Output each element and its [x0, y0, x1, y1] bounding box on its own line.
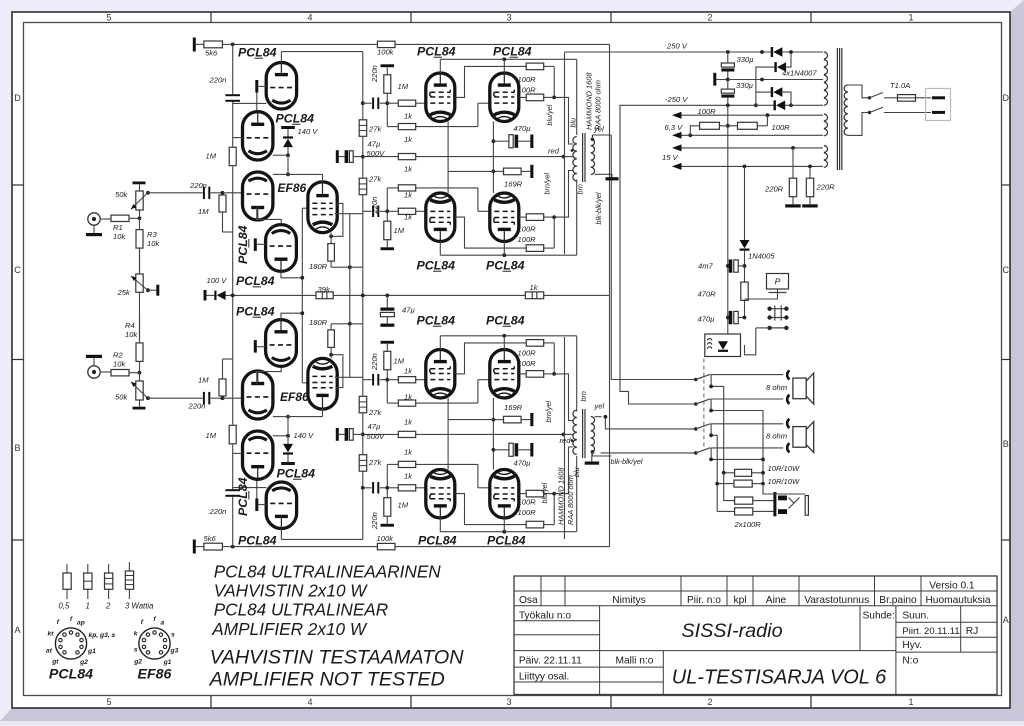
svg-text:Liittyy osal.: Liittyy osal.	[519, 672, 569, 683]
svg-text:kt: kt	[48, 631, 55, 638]
mechanical link dashed	[703, 359, 705, 451]
bottom amplifier channel (mirror)	[86, 296, 611, 554]
svg-text:T1.0A: T1.0A	[890, 81, 910, 90]
svg-text:47µ: 47µ	[368, 422, 381, 431]
svg-text:PCL84: PCL84	[418, 534, 457, 548]
svg-text:5: 5	[106, 697, 111, 707]
resistor 100k rail	[377, 543, 395, 549]
330u cap 2	[721, 89, 734, 93]
input jack	[88, 213, 100, 225]
svg-text:brn/yel: brn/yel	[544, 401, 553, 423]
screen wire col1	[455, 217, 526, 248]
resistor 1k grid stopper row1b	[398, 400, 415, 406]
triode PCL84 A	[266, 482, 296, 529]
cathode cap 470u	[493, 140, 509, 142]
svg-text:yel: yel	[594, 402, 605, 411]
svg-text:100R: 100R	[518, 235, 537, 244]
wire C anode to D cathode	[257, 207, 281, 224]
svg-text:1M: 1M	[198, 375, 209, 384]
svg-text:blu/yel: blu/yel	[540, 482, 549, 503]
svg-text:PCL84: PCL84	[236, 477, 250, 516]
svg-text:red: red	[548, 147, 560, 156]
svg-text:gt: gt	[51, 659, 59, 666]
svg-text:s: s	[134, 647, 138, 654]
resistor 180R cathode EF86	[328, 330, 335, 348]
resistor 27k row1	[359, 178, 367, 195]
svg-text:100k: 100k	[377, 48, 395, 57]
resistor 27k row1	[359, 120, 367, 137]
OPT primary coil	[573, 136, 577, 143]
OPT primary top lead	[576, 456, 578, 532]
svg-text:PCL84: PCL84	[236, 274, 275, 288]
svg-text:VAHVISTIN 2x10 W: VAHVISTIN 2x10 W	[214, 581, 369, 601]
legend resistor 3W	[128, 562, 130, 571]
resistor 10R/10W b	[734, 480, 752, 487]
svg-text:1k: 1k	[404, 213, 413, 222]
svg-text:100R: 100R	[518, 508, 537, 517]
node spine x=233	[232, 44, 234, 94]
legend resistor 2W	[108, 564, 110, 573]
margin ticks	[210, 12, 212, 23]
svg-text:blu/yel: blu/yel	[545, 104, 554, 125]
output tube PCL84 row1 col1	[426, 193, 455, 242]
wire B anode to A grid	[256, 93, 258, 112]
svg-text:330µ: 330µ	[736, 81, 754, 90]
140V zener chain	[281, 126, 295, 129]
svg-text:Varastotunnus: Varastotunnus	[804, 595, 869, 606]
cathode cross wire	[448, 419, 493, 421]
wire B grid to spine	[233, 452, 243, 454]
svg-text:1: 1	[908, 13, 913, 23]
svg-text:brn: brn	[576, 184, 585, 194]
red CT line with 1k	[363, 156, 399, 158]
svg-text:25k: 25k	[117, 288, 131, 297]
resistor 10R/10W a	[735, 469, 752, 476]
svg-text:1k: 1k	[404, 448, 413, 457]
psu	[565, 47, 951, 334]
resistor 2x100R b	[735, 508, 753, 515]
svg-text:180R: 180R	[309, 318, 328, 327]
OPT primary top lead	[576, 180, 578, 256]
capacitor 220n input coupling	[203, 187, 205, 200]
svg-text:SISSI-radio: SISSI-radio	[681, 620, 782, 642]
svg-text:PCL84: PCL84	[417, 314, 456, 328]
power switch contacts	[770, 308, 787, 310]
svg-text:PCL84: PCL84	[277, 467, 316, 481]
PT primary	[844, 85, 848, 92]
svg-text:RJ: RJ	[966, 626, 978, 637]
screen wire col1	[455, 494, 526, 525]
svg-text:PCL84: PCL84	[49, 667, 93, 683]
output tube PCL84 row1 col2	[490, 350, 519, 399]
resistor 100R screen col1	[526, 63, 544, 70]
svg-text:500V: 500V	[367, 432, 386, 441]
svg-text:Nimitys: Nimitys	[612, 595, 645, 606]
speaker wire w1	[611, 135, 696, 380]
svg-text:100R: 100R	[518, 86, 537, 95]
OPT center tap	[564, 433, 574, 435]
OPT2 ground	[592, 453, 595, 462]
triode PCL84 C (flipped)	[243, 371, 273, 420]
grid terminal bar D	[254, 340, 257, 353]
svg-text:1k: 1k	[404, 112, 413, 121]
terminal bar CT	[713, 73, 716, 86]
svg-text:4: 4	[307, 13, 312, 23]
svg-text:B: B	[14, 443, 20, 453]
svg-text:RAA 8000 ohm: RAA 8000 ohm	[594, 80, 603, 130]
output tube PCL84 row1 col2	[490, 73, 519, 122]
resistor 1M grid row1	[384, 498, 391, 517]
resistor 39k	[316, 292, 333, 299]
svg-text:ap: ap	[77, 620, 85, 627]
wire EF86 g3 row	[335, 213, 363, 215]
screen wire col2	[519, 493, 526, 495]
svg-text:180R: 180R	[309, 262, 328, 271]
lamp P	[767, 274, 789, 290]
PT core	[836, 48, 838, 170]
svg-text:brn: brn	[579, 391, 588, 401]
ground at jack	[93, 225, 95, 233]
pentode EF86	[308, 182, 337, 233]
svg-text:blk-blk/yel: blk-blk/yel	[594, 192, 603, 224]
svg-text:Suhde:: Suhde:	[863, 611, 895, 622]
svg-text:140 V: 140 V	[298, 127, 319, 136]
svg-text:1k: 1k	[404, 418, 413, 427]
svg-text:0,5: 0,5	[59, 602, 71, 611]
elco 47u 500V	[336, 150, 339, 163]
svg-text:D: D	[14, 93, 21, 103]
OPT box	[564, 52, 566, 254]
grid terminal bar A	[255, 80, 258, 93]
cap 470u psu	[729, 311, 733, 324]
wire A cathode left	[233, 487, 267, 489]
diode 1N4005	[744, 166, 746, 240]
top amplifier channel	[86, 38, 611, 296]
svg-text:1k: 1k	[404, 191, 413, 200]
triode PCL84 B	[243, 112, 273, 160]
svg-text:Br.paino: Br.paino	[879, 595, 917, 606]
svg-text:27k: 27k	[368, 458, 382, 467]
anode line row1	[440, 335, 576, 337]
svg-text:10k: 10k	[147, 239, 160, 248]
PT 6.3V winding	[824, 114, 828, 121]
svg-text:g2: g2	[133, 659, 142, 666]
svg-text:PCL84: PCL84	[238, 534, 277, 548]
svg-text:P: P	[775, 277, 781, 287]
output tube PCL84 row1 col2	[490, 193, 519, 242]
svg-text:470R: 470R	[698, 290, 717, 299]
svg-text:Malli n:o: Malli n:o	[616, 656, 654, 667]
grid-leak terminal bar row1	[381, 247, 395, 250]
svg-text:4: 4	[307, 697, 312, 707]
svg-text:R2: R2	[113, 350, 123, 359]
svg-text:100R: 100R	[518, 349, 537, 358]
speaker wire w3	[605, 417, 695, 429]
OPT secondary coil	[591, 445, 595, 452]
OPT secondary coil	[591, 139, 595, 146]
svg-text:Piir. n:o: Piir. n:o	[687, 595, 721, 606]
svg-text:100R: 100R	[518, 225, 537, 234]
svg-text:-250 V: -250 V	[665, 95, 688, 104]
svg-text:220n: 220n	[370, 197, 379, 215]
svg-text:PCL84: PCL84	[493, 45, 532, 59]
heater row D	[672, 144, 682, 151]
resistor 1k grid stopper row1a	[398, 485, 415, 491]
resistor R1 10k	[111, 370, 129, 376]
svg-text:s: s	[171, 632, 175, 639]
100R pair joins	[544, 65, 546, 67]
svg-text:R3: R3	[147, 230, 157, 239]
OPT center tap	[564, 156, 574, 158]
resistor 1M spine	[229, 147, 236, 166]
screen wire col2	[519, 216, 526, 218]
screen wire col1	[455, 343, 526, 374]
OPT secondary top lead	[591, 450, 594, 453]
capacitor 220n input spine	[225, 495, 240, 497]
resistor 1M grid row1	[384, 75, 391, 94]
svg-text:470µ: 470µ	[514, 124, 532, 133]
resistor 1k bus	[525, 292, 543, 299]
svg-text:PCL84: PCL84	[417, 45, 456, 59]
screen wire col2	[519, 96, 526, 98]
wire grid col2	[477, 188, 479, 211]
resistor 2x100R a	[735, 497, 753, 504]
svg-text:R1: R1	[113, 223, 123, 232]
svg-text:2: 2	[707, 13, 712, 23]
svg-text:Aine: Aine	[766, 595, 787, 606]
speaker 2 8ohm	[787, 419, 789, 428]
OPT core	[582, 409, 584, 458]
resistor 100R screen col1	[526, 340, 544, 347]
input rail terminal	[193, 540, 196, 554]
svg-text:VAHVISTIN TESTAAMATON: VAHVISTIN TESTAAMATON	[210, 647, 465, 669]
drive spine x=363	[362, 471, 364, 539]
screen join to UL tap	[544, 342, 555, 344]
svg-text:1M: 1M	[206, 152, 217, 161]
svg-text:R4: R4	[125, 321, 135, 330]
wire C cathode right	[273, 416, 288, 418]
resistor 1k grid stopper row1b	[398, 185, 415, 191]
svg-text:15 V: 15 V	[662, 153, 679, 162]
svg-text:Versio 0.1: Versio 0.1	[929, 580, 975, 591]
svg-text:10k: 10k	[113, 232, 126, 241]
svg-text:N:o: N:o	[902, 656, 918, 667]
svg-text:kpl: kpl	[733, 595, 746, 606]
svg-text:g1: g1	[87, 648, 96, 655]
CT wire	[728, 79, 823, 81]
coupling cap C-220n row1	[372, 374, 374, 386]
svg-text:100R: 100R	[518, 498, 537, 507]
svg-text:C: C	[14, 265, 21, 275]
svg-text:1M: 1M	[398, 82, 409, 91]
svg-text:250 V: 250 V	[666, 42, 688, 51]
drive spine x=363	[362, 52, 364, 120]
EF86 screen loop	[331, 203, 343, 236]
resistor 1k grid stopper row1a	[398, 377, 415, 383]
screen join to UL tap	[544, 524, 555, 526]
svg-text:EF86: EF86	[278, 181, 307, 195]
svg-text:PCL84: PCL84	[238, 46, 277, 60]
wire C cathode right	[273, 173, 288, 175]
svg-text:a: a	[161, 620, 165, 627]
svg-text:100k: 100k	[377, 534, 395, 543]
cathode bus col1	[447, 122, 449, 194]
svg-text:1N4005: 1N4005	[748, 252, 775, 261]
speaker wire w4	[601, 452, 696, 454]
svg-text:g1: g1	[163, 659, 172, 666]
resistor 180R cathode EF86	[328, 244, 335, 262]
capacitor 220n input coupling	[203, 392, 205, 405]
capacitor 220n input spine	[225, 94, 240, 96]
EF86 screen loop	[331, 355, 343, 388]
wire A anode to drive node	[280, 529, 282, 540]
cathode cap 470u	[493, 449, 509, 451]
mains switch	[848, 85, 868, 98]
svg-text:1k: 1k	[404, 165, 413, 174]
resistor 100R screen col2	[526, 94, 544, 101]
PT 15V winding	[824, 146, 828, 153]
svg-text:1k: 1k	[404, 392, 413, 401]
output tube PCL84 row1 col1	[426, 350, 455, 399]
screen wire col1	[455, 66, 526, 97]
psu spine down	[727, 105, 729, 334]
wire pot to coupling cap	[148, 192, 203, 194]
relay	[705, 334, 741, 357]
coupling cap C-220n row1	[372, 482, 374, 494]
legend resistor 1W	[87, 564, 89, 573]
resistor 1M spine	[229, 425, 236, 444]
resistor 1k grid stopper row1b	[398, 461, 415, 467]
ground at jack	[93, 358, 95, 366]
OPT box	[564, 337, 566, 539]
svg-text:140 V: 140 V	[294, 431, 315, 440]
heater row A	[672, 112, 682, 119]
svg-text:47µ: 47µ	[368, 139, 381, 148]
wire D anode to EF86 grid	[281, 271, 302, 277]
resistor 27k row1	[359, 455, 367, 472]
wire A anode to drive node	[280, 52, 282, 63]
wire EF86 anode	[322, 174, 324, 182]
svg-text:47µ: 47µ	[402, 306, 415, 315]
svg-text:100R: 100R	[518, 75, 537, 84]
svg-text:PCL84 ULTRALINEAARINEN: PCL84 ULTRALINEAARINEN	[214, 561, 442, 581]
svg-text:blu: blu	[572, 467, 581, 477]
svg-text:3 Wattia: 3 Wattia	[125, 602, 154, 611]
svg-text:Suun.: Suun.	[902, 611, 929, 622]
wire D anode to EF86 grid	[281, 313, 302, 319]
OPT secondary top lead	[591, 138, 594, 141]
svg-text:brn/yel: brn/yel	[543, 173, 552, 195]
triode PCL84 D (flipped)	[266, 225, 297, 272]
svg-text:5k6: 5k6	[204, 534, 217, 543]
svg-text:5k6: 5k6	[205, 49, 218, 58]
svg-text:Päiv. 22.11.11: Päiv. 22.11.11	[519, 656, 582, 667]
250V feed	[565, 51, 771, 53]
wire grid col2	[477, 464, 479, 487]
resistor 100R screen col1	[526, 521, 544, 528]
svg-text:220n: 220n	[189, 181, 207, 190]
headphone jack	[773, 492, 776, 516]
resistor 1k grid stopper row1b	[398, 124, 415, 130]
pot 50k	[133, 182, 146, 185]
svg-text:PCL84: PCL84	[486, 314, 525, 328]
wire C anode to D cathode	[257, 366, 281, 383]
OPT secondary bottom lead	[595, 173, 602, 175]
svg-text:470µ: 470µ	[698, 315, 716, 324]
output tube PCL84 row1 col2	[490, 470, 519, 519]
cap 47u bias	[386, 295, 388, 307]
pinout EF86	[139, 628, 170, 659]
wire 180R return	[331, 323, 363, 325]
grid-leak terminal bar row1	[381, 341, 395, 344]
wire B grid to spine	[233, 137, 243, 139]
cathode bus col2	[492, 398, 494, 470]
svg-text:5: 5	[106, 13, 111, 23]
cathode cross wire	[448, 170, 493, 172]
resistor 5k6	[196, 43, 204, 45]
svg-text:1M: 1M	[198, 207, 209, 216]
wire B cathode right	[273, 154, 288, 156]
elco 47u 500V	[336, 428, 339, 441]
grid terminal bar A	[255, 499, 258, 512]
resistor R3 10k	[136, 343, 143, 362]
selector network	[711, 375, 724, 473]
resistor 100k rail	[377, 41, 395, 47]
input jack	[88, 366, 100, 378]
resistor R1 10k	[111, 215, 129, 221]
svg-text:1: 1	[86, 602, 90, 611]
svg-text:EF86: EF86	[280, 390, 309, 404]
mains plug	[884, 112, 931, 114]
svg-text:27k: 27k	[368, 125, 382, 134]
resistor 27k row1	[359, 396, 367, 413]
svg-text:50k: 50k	[115, 392, 128, 401]
OPT core	[582, 133, 584, 182]
wire pot to coupling cap	[148, 397, 203, 399]
resistor 100R screen col2	[526, 214, 544, 221]
wire B cathode right	[273, 435, 288, 437]
PT HV winding	[824, 52, 828, 59]
wire 180R return	[331, 266, 363, 268]
diode D4	[774, 100, 776, 110]
svg-text:PCL84: PCL84	[487, 534, 526, 548]
svg-text:39k: 39k	[318, 285, 331, 294]
fuse T1.0A	[884, 97, 898, 99]
svg-text:169R: 169R	[504, 403, 523, 412]
svg-text:100R: 100R	[772, 123, 791, 132]
svg-text:169R: 169R	[504, 180, 523, 189]
output bank row2 (mirrored)	[359, 334, 577, 421]
svg-text:PCL84 ULTRALINEAR: PCL84 ULTRALINEAR	[214, 600, 388, 620]
svg-text:AMPLIFIER NOT TESTED: AMPLIFIER NOT TESTED	[209, 669, 445, 691]
svg-text:8 ohm: 8 ohm	[766, 432, 787, 441]
svg-text:PCL84: PCL84	[417, 259, 456, 273]
svg-text:AMPLIFIER 2x10 W: AMPLIFIER 2x10 W	[211, 619, 368, 639]
svg-text:2x100R: 2x100R	[734, 520, 762, 529]
output tube PCL84 row1 col1	[426, 470, 455, 519]
wire A cathode left	[233, 102, 267, 104]
triode PCL84 B	[243, 431, 273, 479]
svg-text:blu: blu	[569, 118, 578, 128]
resistor 1M grid leak	[219, 195, 226, 212]
wire EF86 anode	[322, 409, 324, 417]
svg-text:at: at	[46, 648, 53, 655]
resistor 100R screen col2	[526, 490, 544, 497]
svg-text:100R: 100R	[698, 107, 717, 116]
svg-text:blk-blk/yel: blk-blk/yel	[611, 457, 643, 466]
svg-text:1M: 1M	[206, 431, 217, 440]
wire 250V to PT	[781, 51, 823, 53]
